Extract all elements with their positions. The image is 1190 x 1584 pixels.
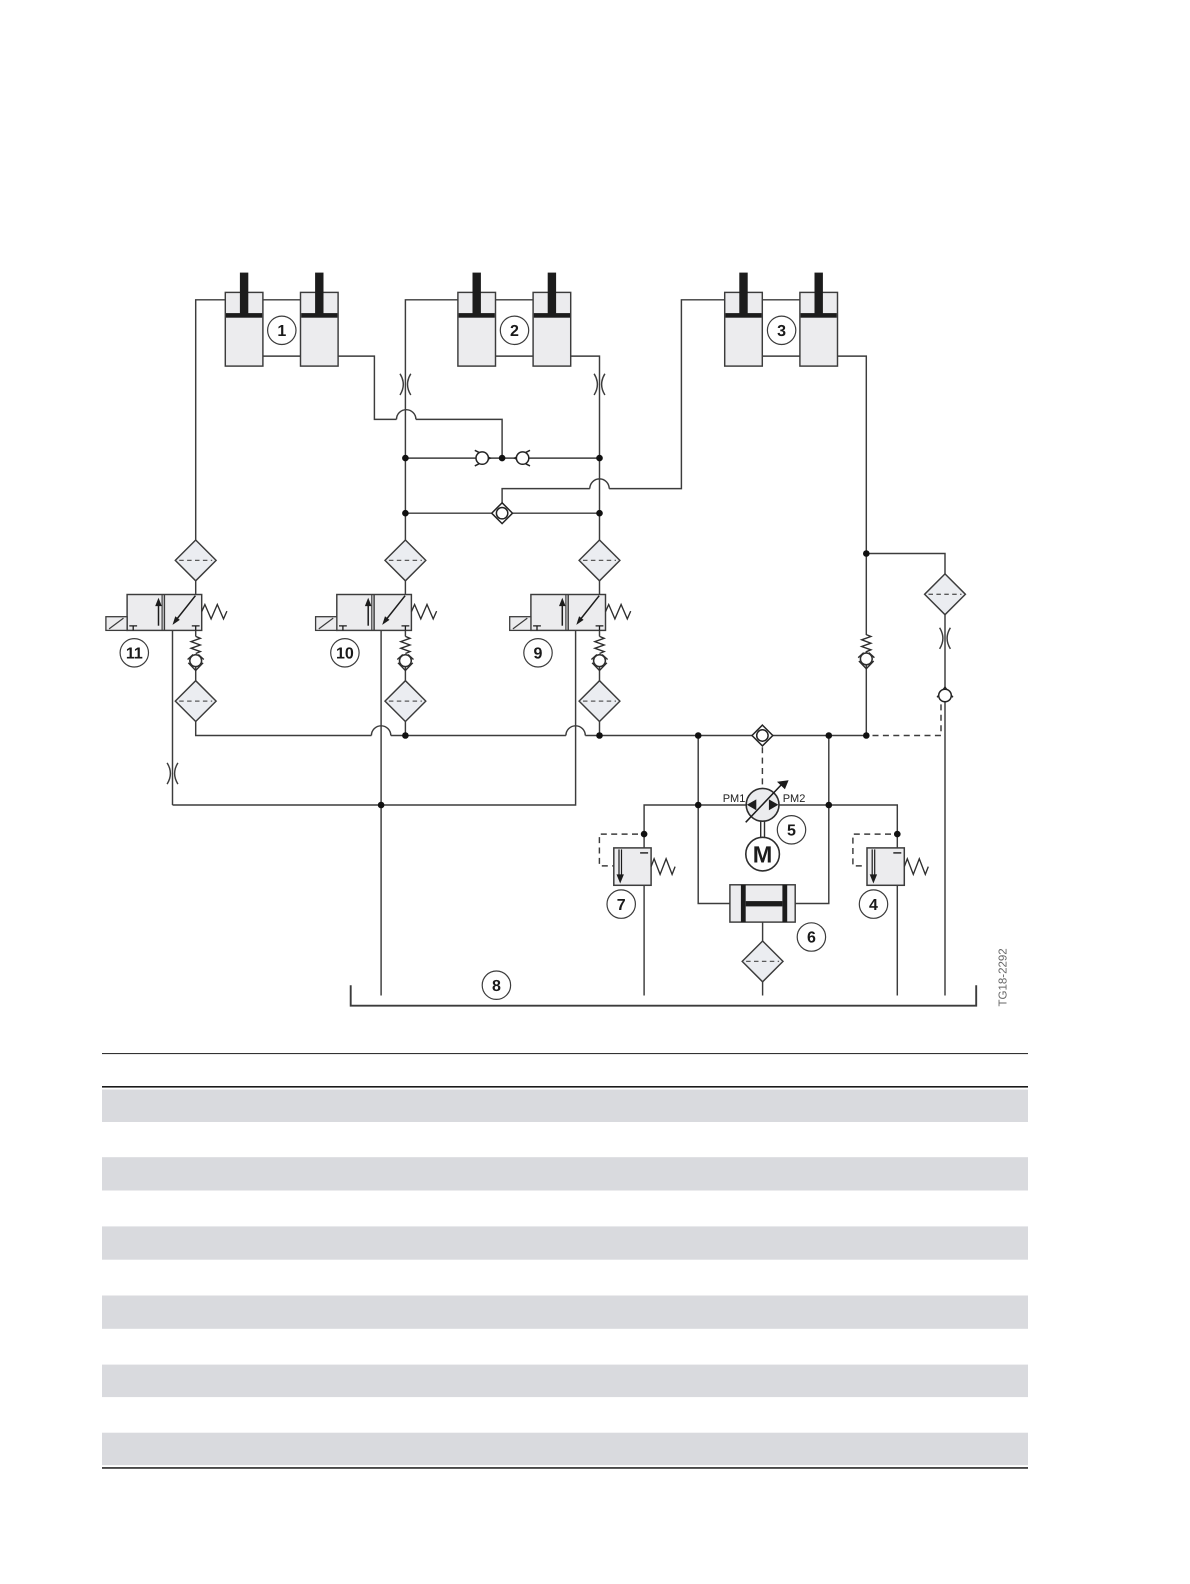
wire valve 11 check chain: [195, 630, 197, 680]
wire suction filter to tank: [762, 981, 764, 996]
wire shuttle output riser: [502, 300, 725, 503]
svg-text:TG18-2292: TG18-2292: [998, 948, 1010, 1006]
cylinder pair 3: [725, 273, 838, 366]
wire valve 11 tank port down through orifice to drain bus corner: [172, 630, 174, 805]
pilot operated check valve right branch: [937, 687, 953, 702]
node A dot center: [499, 455, 506, 462]
label circle 2: [500, 316, 528, 344]
shuttle line dot left: [402, 510, 409, 517]
junction dots: [378, 455, 901, 838]
valve 11 solenoid 2/2: [106, 595, 227, 631]
orifice on valve11 drain: [167, 763, 178, 784]
wire spring-check to main bus: [865, 651, 867, 735]
svg-text:M: M: [753, 841, 773, 867]
table top rule: [102, 1053, 1028, 1054]
svg-text:5: 5: [787, 823, 796, 840]
wire valve 9 check chain: [599, 630, 601, 680]
label circle 4: [859, 890, 887, 918]
label circle 5: [777, 816, 805, 844]
orifice below cyl2 right: [594, 374, 605, 395]
table row band 6: [102, 1433, 1028, 1466]
wire hop over valve9 drain: [566, 726, 585, 736]
svg-text:10: 10: [336, 646, 354, 663]
wire valve10 filter F10b to bus: [404, 722, 406, 736]
wire check valve line node A: [405, 457, 599, 459]
label circle 3: [767, 316, 795, 344]
label circle 11: [120, 639, 148, 667]
suction filter below heat exchanger: [742, 941, 783, 982]
pump 5 variable displacement: [746, 780, 789, 822]
wire pilot dashed valve 7: [599, 834, 638, 866]
label circle 6: [797, 923, 825, 951]
check valve CV1: [475, 450, 490, 466]
cylinder pair 2: [458, 273, 571, 366]
tank 8 reservoir: [351, 985, 977, 1006]
wire filter F9 to valve 9 top port: [599, 581, 601, 595]
bus dot node B: [863, 732, 870, 739]
relief valve 4: [867, 848, 928, 885]
wire heat exchanger bottom to suction filter: [762, 922, 764, 942]
relief valve 7: [614, 848, 675, 885]
wire pilot dashed shuttle to pump: [761, 747, 763, 788]
wire filter F3 through orifice and check valve to tank: [944, 615, 946, 996]
filter below valve 9: [579, 681, 620, 722]
node B dot: [863, 550, 870, 557]
wire hop over valve10 drain: [371, 726, 390, 736]
wire valve 10 check chain: [404, 630, 406, 680]
svg-text:2: 2: [510, 323, 519, 340]
check valve CV2: [515, 450, 530, 466]
wire main bus from filter F11b to node B: [196, 722, 867, 736]
bus dot filter F9b: [596, 732, 603, 739]
spring check on node B branch: [858, 635, 874, 669]
node A dot left: [402, 455, 409, 462]
filter above valve 11: [175, 540, 216, 581]
svg-text:4: 4: [869, 897, 878, 914]
shuttle valve between cyl2 lines: [492, 503, 513, 524]
wire node B to filter F3 branch: [866, 554, 945, 574]
wire bus to heat exchanger right: [795, 736, 829, 904]
wire pump PM1 side to valve 7: [644, 805, 746, 853]
heat exchanger 6: [730, 885, 795, 922]
pump line dot right: [826, 802, 833, 809]
wire drain bus to valve 9 tank port: [173, 630, 576, 805]
table row band 4: [102, 1296, 1028, 1329]
drain bus dot: [378, 802, 385, 809]
svg-text:9: 9: [534, 646, 543, 663]
wire hop over cyl2-left line: [397, 410, 416, 420]
orifice below cyl2 left: [400, 374, 411, 395]
table row band 1: [102, 1090, 1028, 1123]
table row band 5: [102, 1365, 1028, 1398]
wire shuttle valve line: [405, 512, 599, 514]
shuttle line dot right: [596, 510, 603, 517]
wire valve 10 tank port straight down to tank: [380, 630, 382, 995]
wire pilot dashed valve 4: [853, 834, 891, 866]
filter above valve 9: [579, 540, 620, 581]
table row band 3: [102, 1226, 1028, 1259]
node A dot right: [596, 455, 603, 462]
svg-text:8: 8: [492, 978, 501, 995]
bus dot filter F10b: [402, 732, 409, 739]
wire bus to heat exchanger left: [698, 736, 730, 904]
svg-text:1: 1: [277, 323, 286, 340]
spring check below valve 10: [397, 636, 413, 670]
wire filter F10 to valve 10 top port: [404, 581, 406, 595]
svg-text:7: 7: [617, 897, 626, 914]
wire node B down to spring-check: [865, 554, 867, 636]
label circle 1: [268, 316, 296, 344]
wire cylinder2 right port down to filter F9: [571, 356, 600, 540]
wire valve 4 outlet to tank: [896, 885, 898, 995]
bus dot exchanger right: [826, 732, 833, 739]
svg-text:11: 11: [126, 646, 143, 663]
svg-text:PM2: PM2: [783, 793, 806, 805]
wire pilot dashed bus node B to pilot check: [873, 703, 942, 736]
cylinder pair 1: [225, 273, 338, 366]
filter below valve 11: [175, 681, 216, 722]
orifice on filter F3 branch: [940, 628, 951, 649]
spring check below valve 9: [591, 636, 607, 670]
wire pump PM2 side to valve 4: [779, 805, 898, 853]
wire valve9 filter F9b to bus: [599, 722, 601, 736]
wire valve 7 outlet to tank: [643, 885, 645, 995]
valve 7 pilot dot: [641, 831, 648, 838]
wire cylinder3 right port down to node B: [838, 356, 866, 553]
table row band 2: [102, 1157, 1028, 1190]
spring check below valve 11: [188, 636, 204, 670]
filter above valve 10: [385, 540, 426, 581]
svg-text:PM1: PM1: [723, 793, 746, 805]
shuttle check on main bus: [752, 725, 773, 746]
filter F3 right branch: [925, 574, 966, 615]
table header rule: [102, 1086, 1028, 1088]
label circle 10: [331, 639, 359, 667]
motor M: [746, 837, 780, 871]
label circle 7: [607, 890, 635, 918]
filter below valve 10: [385, 681, 426, 722]
label circle 8: [482, 971, 510, 999]
svg-text:3: 3: [777, 323, 786, 340]
label circle 9: [524, 639, 552, 667]
wire cylinder1 left port to filter F11: [196, 300, 226, 540]
bus dot exchanger left: [695, 732, 702, 739]
svg-text:6: 6: [807, 930, 816, 947]
wire hop over cyl2-right line: [590, 479, 609, 489]
valve 9 solenoid 2/2: [510, 595, 631, 631]
valve 10 solenoid 2/2: [316, 595, 437, 631]
pump line dot left: [695, 802, 702, 809]
wire cylinder1 right port to check-valve node A: [338, 356, 502, 458]
pump motor shaft: [761, 821, 765, 838]
wire cylinder2 left port down to filter F10: [405, 300, 458, 540]
table bottom rule: [102, 1467, 1028, 1469]
wire filter F11 to valve 11 top port: [195, 581, 197, 595]
valve 4 pilot dot: [894, 831, 901, 838]
